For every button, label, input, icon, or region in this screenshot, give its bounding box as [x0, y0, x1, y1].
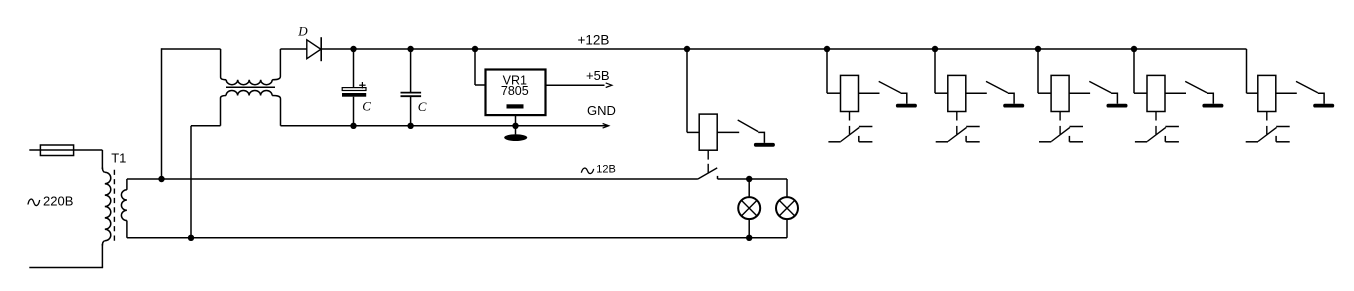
wire: choke bottom-left to return — [191, 125, 221, 127]
wire: C2 top lead — [410, 49, 412, 92]
K6 coil — [1258, 75, 1276, 111]
wire: K3 feed down — [934, 49, 936, 93]
ground bar K5 — [1202, 104, 1223, 108]
svg-text:+12В: +12В — [578, 33, 610, 48]
lamp HL2 — [786, 179, 788, 197]
node: lamp1 bottom junction — [746, 235, 752, 241]
K3 contact NC lead — [966, 141, 980, 143]
wire: lamp return line to T1 secondary bottom — [127, 237, 787, 239]
wire: VR1 input down — [474, 49, 476, 85]
wire: choke to diode anode — [280, 48, 306, 50]
svg-text:GND: GND — [587, 103, 616, 118]
K4 contact NO lead — [1070, 126, 1084, 128]
K1 contact fixed tick — [717, 176, 719, 179]
K1 driver switch blade — [738, 120, 759, 132]
fuse FU1 — [40, 145, 73, 156]
K2 driver switch blade — [879, 81, 901, 92]
wire: +5V output — [546, 84, 605, 86]
T1 core (dashed) — [113, 170, 115, 243]
svg-text:C: C — [362, 99, 371, 114]
svg-text:T1: T1 — [111, 151, 126, 166]
wire: down to T1 primary — [101, 150, 103, 169]
wire: K2 feed down — [826, 49, 828, 93]
wire: K4 feed to coil — [1038, 92, 1051, 94]
K5 contact NC lead — [1165, 141, 1179, 143]
node: junction T1 secondary / rectifier feed — [158, 176, 164, 182]
K2 mechanical link — [849, 112, 851, 121]
wire: VR1 ground pin — [515, 115, 517, 126]
VR1 tab bar — [507, 104, 524, 108]
node: C2 top junction — [407, 46, 413, 52]
wire: T1 primary bottom lead — [101, 244, 103, 268]
node: VR1 ground junction — [512, 123, 518, 129]
wire: K3 switch pivot to ground — [1008, 93, 1014, 104]
K5 coil — [1147, 75, 1165, 111]
wire: K3 coil to switch — [966, 92, 987, 94]
wire: K2 switch pivot to ground — [901, 93, 907, 104]
wire: VR1 to chassis ground — [515, 126, 517, 135]
wire: K5 feed down — [1133, 49, 1135, 93]
+5V arrow — [606, 83, 612, 88]
K5 mechanical link — [1155, 112, 1157, 121]
K2 contact NC lead — [859, 141, 873, 143]
K6 contact NO lead — [1276, 126, 1290, 128]
wire: K4 feed down — [1037, 49, 1039, 93]
wire: 220V line to fuse and T1 primary top — [29, 149, 102, 151]
K3 mechanical link — [956, 112, 958, 121]
diode D — [307, 40, 321, 59]
K3 contact NC tick — [965, 136, 967, 142]
K1 mechanical link — [707, 150, 709, 159]
wire: K6 switch pivot to ground — [1318, 93, 1324, 104]
wire: K4 coil to switch — [1069, 92, 1090, 94]
wire: K5 switch pivot to ground — [1207, 93, 1213, 104]
AC tilde for 12V label — [581, 168, 593, 174]
VR1 box — [486, 70, 546, 116]
node: lamp1 top junction — [746, 176, 752, 182]
wire: top rail to filter choke — [162, 48, 221, 50]
wire: K5 coil to switch — [1165, 92, 1186, 94]
K5 contact common lead — [1135, 141, 1147, 143]
wire: GND rail — [281, 125, 609, 127]
K3 coil — [948, 75, 966, 111]
node: K5 rail junction — [1131, 46, 1137, 52]
K6 mechanical link — [1266, 112, 1268, 121]
svg-text:12В: 12В — [596, 163, 616, 175]
choke top winding — [221, 49, 227, 80]
K1 coil — [699, 114, 717, 150]
svg-text:7805: 7805 — [501, 84, 529, 98]
K4 contact NC tick — [1068, 136, 1070, 142]
K3 driver switch blade — [986, 81, 1008, 92]
node: K1 rail junction — [684, 46, 690, 52]
node: C1 top junction — [350, 46, 356, 52]
ground bar K3 — [1003, 104, 1024, 108]
AC tilde for 220V label — [28, 199, 40, 205]
wire: C1 top lead — [353, 49, 355, 88]
K2 coil — [841, 75, 859, 111]
K2 contact NO lead — [859, 126, 873, 128]
wire: K1 coil to switch — [717, 131, 739, 133]
node: C2 bottom junction — [407, 123, 413, 129]
wire: C1 bottom lead — [353, 97, 355, 126]
T1 primary winding — [102, 168, 104, 173]
GND arrow — [603, 124, 609, 129]
wire: down to lamp return line — [190, 126, 192, 238]
wire: up from ~12V node to top rail — [161, 48, 163, 179]
wire: VR1 input into box — [475, 84, 486, 86]
C1 plus sign — [359, 84, 365, 86]
wire: K6 feed to coil — [1247, 92, 1258, 94]
K6 contact NC lead — [1276, 141, 1290, 143]
svg-text:D: D — [297, 24, 308, 39]
K5 driver switch blade — [1185, 81, 1207, 92]
K3 contact NO lead — [966, 126, 980, 128]
svg-text:C: C — [418, 99, 427, 114]
K4 driver switch blade — [1089, 81, 1111, 92]
C1 positive plate (hollow) — [342, 88, 366, 91]
T1 secondary winding — [126, 179, 128, 190]
K6 driver switch blade — [1296, 81, 1318, 92]
K6 contact common lead — [1246, 141, 1258, 143]
node: K4 rail junction — [1035, 46, 1041, 52]
K4 contact NC lead — [1069, 141, 1083, 143]
svg-text:+5В: +5В — [586, 68, 610, 83]
svg-text:220В: 220В — [43, 194, 73, 209]
node: C1 bottom junction — [350, 123, 356, 129]
K5 contact NC tick — [1164, 136, 1166, 142]
wire: K5 feed to coil — [1134, 92, 1147, 94]
wire: +12V rail — [321, 48, 1246, 50]
K4 mechanical link — [1059, 112, 1061, 121]
K3 contact common lead — [936, 141, 948, 143]
wire: K4 switch pivot to ground — [1111, 93, 1117, 104]
choke core — [226, 86, 275, 88]
wire: K3 feed to coil — [935, 92, 948, 94]
wire: ~12V line from T1 secondary top — [127, 178, 698, 180]
wire: bottom 220V return — [29, 267, 103, 269]
K4 coil — [1051, 75, 1069, 111]
node: K2 rail junction — [824, 46, 830, 52]
chassis ground symbol — [504, 134, 527, 141]
ground bar K2 — [896, 104, 917, 108]
wire: ~12V to lamps — [718, 178, 788, 180]
wire: K1 feed down — [686, 49, 688, 132]
wire: K1 feed to coil — [687, 131, 699, 133]
ground bar K4 — [1107, 104, 1128, 108]
lamp HL1 — [748, 179, 750, 197]
wire: C2 bottom lead — [410, 96, 412, 126]
node: VR1 input junction — [472, 46, 478, 52]
K6 contact NC tick — [1275, 136, 1277, 142]
node: K3 rail junction — [932, 46, 938, 52]
wire: K2 coil to switch — [859, 92, 880, 94]
wire: K6 coil to switch — [1276, 92, 1297, 94]
wire: K6 feed down — [1246, 49, 1248, 93]
wire: K1 switch pivot to ground — [758, 132, 764, 143]
K4 contact common lead — [1039, 141, 1051, 143]
K2 contact common lead — [828, 141, 840, 143]
K1 contact in ~12V line — [698, 168, 717, 179]
choke bottom winding — [221, 96, 227, 126]
node: return junction — [188, 235, 194, 241]
ground bar K6 — [1313, 104, 1334, 108]
C1 negative plate (solid) — [342, 93, 366, 97]
K2 contact NC tick — [858, 136, 860, 142]
K5 contact NO lead — [1165, 126, 1179, 128]
ground bar K1 — [754, 143, 775, 147]
wire: K2 feed to coil — [827, 92, 841, 94]
